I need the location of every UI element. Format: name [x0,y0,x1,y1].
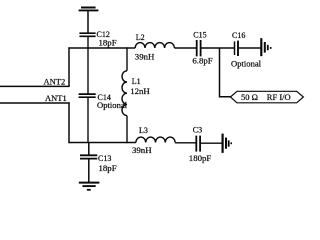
svg-text:39nH: 39nH [135,51,155,61]
svg-text:ANT2: ANT2 [44,77,66,87]
capacitor C3 [196,136,200,152]
wire: L1 riser from top bus [126,47,128,71]
wire: ANT1 lead [0,102,70,104]
svg-text:L3: L3 [139,126,148,135]
inductor L2 [135,43,174,48]
capacitor C13 [80,155,97,158]
wire: bottom bus [69,142,136,144]
ground (bottom, below C13) [79,183,100,190]
svg-text:C16: C16 [232,31,245,40]
inductor L3 [136,137,175,142]
svg-text:L1: L1 [132,77,141,86]
wire: ANT2 lead [0,85,70,87]
wire: L1 to bottom bus [126,116,128,144]
wire: top ground to C12 [87,11,89,34]
wire: L3 to C3 [175,142,196,144]
node RF I/O pennant [230,91,303,103]
svg-text:50 Ω: 50 Ω [241,92,258,102]
wire: C13 to bottom ground [88,159,90,182]
wire: C15 to C16 [201,47,234,49]
svg-text:L2: L2 [136,33,145,42]
ground (top right, sideways) [261,38,270,56]
svg-text:C3: C3 [193,126,202,135]
svg-text:12nH: 12nH [130,86,150,96]
wire: RF riser from top bus [220,48,231,97]
wire: C3 to ground [201,142,222,144]
svg-text:6.8pF: 6.8pF [192,56,212,66]
wire: top bus [69,47,136,49]
capacitor C12 [79,33,95,36]
wire: C14 to bottom bus [87,97,89,143]
inductor L1 [122,71,127,116]
svg-text:39nH: 39nH [132,145,152,155]
wire: L2 to C15 [174,47,196,49]
svg-text:C13: C13 [98,154,111,163]
capacitor C15 [197,40,201,56]
svg-text:180pF: 180pF [189,153,212,163]
svg-text:18pF: 18pF [99,163,117,173]
svg-text:18pF: 18pF [99,37,117,47]
svg-text:RF I/O: RF I/O [267,92,291,102]
capacitor C14 [79,94,96,97]
svg-text:C15: C15 [193,31,206,40]
wire: bottom bus to C13 [88,143,90,156]
wire: ANT1 riser [68,102,70,143]
svg-text:ANT1: ANT1 [45,93,67,103]
wire: C12 through top bus down to C14 [87,37,89,94]
wire: C16 to ground [239,47,261,49]
capacitor C16 [235,41,239,56]
svg-text:Optional: Optional [231,59,262,69]
ground (top, above C12) [79,8,99,11]
ground (bottom right, sideways) [223,134,232,153]
wire: ANT2 riser [68,47,70,86]
